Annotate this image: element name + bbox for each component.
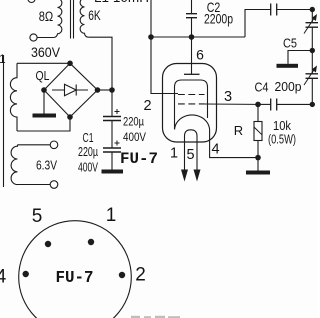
winding 6.3V [11,145,17,185]
transformer B1 core [3,55,5,187]
cathode dome [175,115,210,130]
wire to node D [311,27,313,50]
beam shield (inner U) [175,80,208,130]
junction node E [310,102,315,107]
filament arrow 1 [181,170,188,182]
ground (cathode resistor) [246,171,270,175]
winding 8-ohm (output transformer secondary) [54,0,62,38]
wire 6.3V top lead [18,144,51,146]
pin 3 wire [205,103,259,105]
ground (C5 tank) [277,64,299,68]
svg-text:QL: QL [36,68,50,83]
svg-text:5: 5 [32,206,43,227]
svg-text:360V: 360V [31,45,60,60]
transformer B2 secondary terminal (lower) [30,34,37,41]
junction bridge left [41,87,47,93]
wire L1 feed from top [150,0,152,37]
ground (bridge) [33,114,57,118]
wire B+ node to filter cap [111,90,113,116]
svg-text:6: 6 [196,47,204,63]
filament arrow 5 [194,170,201,182]
capacitor C3 (top coupling) [271,4,277,16]
junction bridge bottom [67,114,73,120]
capacitor C2 [186,14,197,18]
junction node D [310,48,315,53]
bridge rectifier QL diamond [44,63,98,117]
grid 2 dashes [178,103,205,105]
wire node F to C4 [258,103,271,105]
junction node F [255,102,261,108]
socket pin 4 dot [23,271,29,277]
arrow of variable capacitor C5 [304,17,315,34]
svg-text:C5: C5 [283,36,297,51]
wire rail up to coupling cap [245,10,271,38]
filament U [185,130,198,170]
terminal 6.3V top [50,141,58,149]
transformer core [71,0,74,39]
wire plate rail [151,36,245,38]
polarity plus (upper cap) [115,109,120,114]
svg-text:220µ: 220µ [123,115,144,129]
junction bridge right [95,87,101,93]
junction node G [255,155,261,161]
svg-text:FU-7: FU-7 [120,150,158,168]
wire terminal to 8-ohm winding [37,37,53,39]
capacitor 220u 400V (upper filter cap) [103,117,121,121]
svg-text:2: 2 [143,98,151,114]
transformer B2 secondary terminal (top, cut) [28,0,35,3]
svg-text:220µ: 220µ [78,145,98,159]
wire bridge minus to ground [43,90,45,114]
junction node C [310,7,315,12]
winding 360V [10,63,17,131]
ground (filter caps) [102,170,124,174]
capacitor C2 lead top [191,0,193,14]
junction node A [148,34,154,40]
svg-text:L1 10mH: L1 10mH [94,0,149,5]
wire between filter caps [111,121,113,148]
diode inside bridge [52,84,88,96]
svg-text:FU-7: FU-7 [56,269,94,288]
tube V1 envelope [163,64,217,143]
wire tank rail upper [311,10,313,23]
socket pin 2 dot [119,272,125,278]
svg-text:R: R [234,123,243,138]
winding 6K (output transformer primary) [80,0,88,37]
svg-text:400V: 400V [78,161,98,175]
junction bridge top [67,61,73,67]
socket outline circle [19,221,132,318]
capacitor C4 [271,99,277,111]
wire cap to node C [277,9,313,11]
svg-text:3: 3 [224,89,232,105]
variable capacitor C5 [306,23,319,28]
svg-text:6.3V: 6.3V [36,159,58,173]
caption fragment (cut at bottom) [131,316,180,318]
resistor R 10k [257,104,259,121]
wire tank rail lower [311,78,313,104]
wire C2 bottom to rail [191,18,193,37]
wire bridge plus to B+ node [98,89,113,91]
socket pin 5 dot [45,241,51,247]
wire node G to ground [257,158,259,171]
pin 2 wire [151,37,178,94]
terminal 6.3V bottom [50,181,58,189]
svg-text:400V: 400V [123,130,146,144]
junction B+ node [109,87,115,93]
svg-text:2: 2 [135,265,146,286]
svg-text:C1: C1 [83,131,94,145]
polarity plus (lower cap C1) [115,141,120,146]
svg-text:1: 1 [106,205,117,226]
socket pin 1 dot [88,239,94,245]
svg-text:C4: C4 [255,80,269,95]
anode plate bar [184,73,200,75]
svg-text:(0.5W): (0.5W) [268,133,296,147]
svg-text:10k: 10k [273,118,291,133]
svg-text:6K: 6K [88,8,101,23]
capacitor C1 [103,148,121,152]
variable capacitor (lower) [306,74,319,79]
svg-text:5: 5 [186,147,194,163]
svg-text:200p: 200p [275,79,302,94]
grid 1 dashes [178,94,205,96]
wire 360V bottom to bridge [17,117,70,131]
arrow of lower variable capacitor [304,68,315,85]
svg-text:2200p: 2200p [204,11,233,27]
wire tank rail middle [311,51,313,74]
junction node B [189,34,195,40]
wire 6K winding to B+ node [88,37,112,90]
wire 360V top to bridge [17,62,70,64]
pin 6 plate lead [191,37,193,74]
svg-text:4: 4 [211,142,219,158]
svg-text:1: 1 [170,146,178,162]
wire 6.3V bottom lead [18,184,51,186]
svg-text:4: 4 [0,267,7,288]
pin 4 wire [210,130,258,158]
wire C4 to node E [277,103,313,105]
wire node D to ground [288,51,312,64]
wire C1 to ground [111,152,113,170]
svg-text:8Ω: 8Ω [39,9,54,24]
